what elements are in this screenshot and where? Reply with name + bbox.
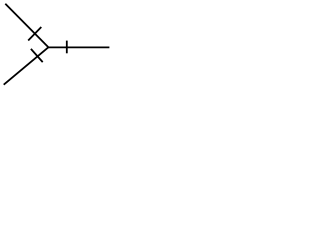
tick on lower diagonal (31, 49, 43, 62)
wire horizontal (47, 46, 109, 48)
wire upper diagonal (5, 4, 48, 48)
tick on horizontal wire (66, 41, 68, 54)
tick on upper diagonal (28, 27, 41, 41)
wire lower diagonal (4, 47, 49, 84)
